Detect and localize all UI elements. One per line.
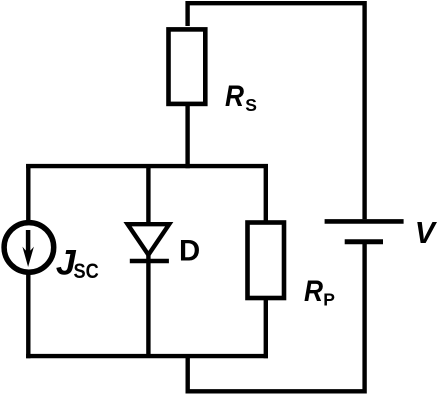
wire: top loop (Rs top to battery top) bbox=[188, 3, 365, 219]
resistor R_P body bbox=[248, 223, 285, 299]
svg-text:S: S bbox=[245, 95, 257, 115]
resistor R_S body bbox=[169, 29, 206, 104]
svg-text:V: V bbox=[415, 217, 438, 250]
diode D triangle bbox=[128, 224, 170, 255]
current source arrow shaft bbox=[26, 230, 31, 254]
wire: left branch lower bbox=[26, 274, 30, 359]
svg-text:R: R bbox=[304, 275, 323, 308]
current source arrow head bbox=[22, 247, 34, 267]
wire: inner bottom rail bbox=[26, 354, 268, 358]
wire: Rp branch lower bbox=[264, 298, 268, 358]
wire: inner top rail bbox=[26, 164, 268, 168]
wire: diode branch vertical bbox=[146, 164, 150, 356]
wire: Rs bottom to node A bbox=[185, 104, 189, 168]
svg-text:SC: SC bbox=[74, 259, 99, 283]
wire: bottom link (node B down, right, up to battery bottom) bbox=[188, 244, 365, 391]
battery V top plate bbox=[325, 219, 404, 224]
wire: Rp branch upper bbox=[264, 164, 268, 222]
wire: left branch upper bbox=[26, 164, 30, 222]
svg-text:P: P bbox=[323, 289, 335, 309]
diode D cathode bar bbox=[130, 259, 169, 264]
svg-text:D: D bbox=[179, 235, 200, 268]
battery V bottom plate bbox=[345, 239, 383, 244]
svg-text:R: R bbox=[225, 80, 244, 113]
current source J_SC circle bbox=[4, 223, 54, 273]
